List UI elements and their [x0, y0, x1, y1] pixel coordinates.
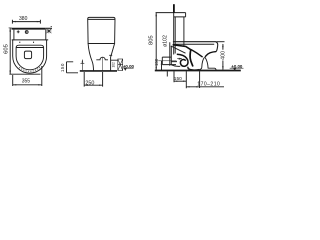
bowl back diagonal: [171, 46, 186, 53]
lid top extension tick: [9, 27, 12, 29]
svg-text:±0.00: ±0.00: [231, 64, 243, 69]
dim 400 vertical: [222, 44, 224, 70]
svg-text:400: 400: [220, 51, 226, 60]
svg-text:ø102: ø102: [162, 35, 168, 47]
outlet centerline: [102, 57, 104, 70]
dim 250 extension lines: [84, 72, 102, 87]
svg-text:150: 150: [174, 76, 182, 82]
ground line right view: [155, 70, 241, 72]
svg-text:102: 102: [112, 62, 116, 68]
cistern side box: [88, 17, 115, 43]
svg-text:150: 150: [60, 63, 65, 72]
wall hatch block: [118, 59, 123, 71]
arch right leg and base: [205, 57, 216, 70]
outlet pipe ledge: [109, 55, 117, 60]
trap lower line: [171, 65, 180, 67]
cistern body: [14, 30, 46, 41]
bowl inner slope: [191, 50, 203, 58]
dim line 250: [84, 84, 102, 86]
bowl underside curve: [205, 52, 216, 57]
outlet centerline: [158, 60, 176, 62]
inlet arrow marker: [81, 60, 85, 71]
flush button circle: [25, 31, 28, 34]
cistern lid: [12, 28, 46, 30]
foot bottom: [188, 67, 199, 70]
ground line front view: [9, 73, 40, 75]
svg-text:380: 380: [19, 16, 28, 22]
outlet semicircle marker: [96, 57, 108, 60]
rim thick: [173, 45, 191, 50]
dim line 355 with arrows: [13, 84, 42, 86]
dim line 380: [12, 20, 40, 24]
cistern lid inner line: [88, 18, 115, 20]
level mark right: [230, 67, 244, 69]
fitting box: [174, 13, 186, 17]
svg-text:250: 250: [85, 81, 94, 87]
seat underside line: [174, 43, 214, 45]
pan back verticals: [170, 42, 172, 66]
flush pipe edges: [174, 13, 184, 55]
seat top line: [173, 42, 218, 52]
sump hole rounded square: [24, 51, 31, 59]
dim line 170-210: [186, 86, 224, 88]
dim 355 extension lines: [13, 66, 42, 86]
bowl top flange: [12, 39, 49, 41]
dim line 150 below ground: [174, 80, 186, 82]
supply pipe thick: [173, 4, 175, 12]
top line (805 level): [156, 12, 186, 14]
trap ring thick: [177, 54, 188, 66]
below ground extension lines: [167, 71, 199, 88]
heel thick vertical: [190, 50, 193, 67]
dim 150 vertical (outlet height): [161, 61, 163, 70]
svg-text:±0.00: ±0.00: [123, 64, 135, 69]
svg-text:605: 605: [4, 44, 10, 54]
level mark middle: [123, 67, 133, 69]
150 bracket line: [67, 62, 79, 73]
svg-text:170–210: 170–210: [197, 82, 220, 88]
flush button +: [17, 30, 20, 33]
dim 605 vertical line: [9, 28, 11, 74]
ground line middle view: [80, 70, 117, 72]
pedestal left edge: [88, 44, 93, 71]
leader arrow: [177, 58, 182, 59]
svg-text:150: 150: [154, 58, 159, 66]
inlet symbol right of lid: [46, 27, 52, 34]
dim 400 extension: seat line ext: [217, 41, 225, 43]
outlet stub box: [162, 57, 177, 65]
dim 805 vertical line: [155, 13, 157, 71]
svg-text:355: 355: [22, 78, 31, 84]
pedestal right edge: [111, 44, 115, 71]
foot ring dashes: [19, 67, 40, 71]
bowl outer sides: [13, 40, 47, 73]
seat inner line: [16, 47, 43, 49]
seat hinges: [20, 42, 34, 43]
arch left leg: [199, 57, 204, 69]
svg-text:805: 805: [148, 35, 154, 45]
seat outer ring: [16, 45, 43, 70]
